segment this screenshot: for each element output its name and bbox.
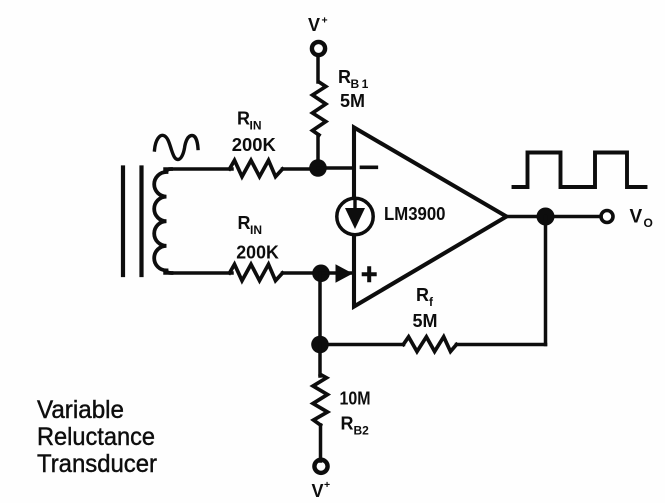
svg-text:R: R xyxy=(237,109,250,129)
node V+ bottom label xyxy=(312,479,331,501)
label LM3900 xyxy=(384,204,446,224)
svg-text:V: V xyxy=(308,15,320,35)
svg-text:200K: 200K xyxy=(236,243,279,263)
wire RB1 to minus node xyxy=(316,135,320,169)
caption Variable Reluctance Transducer xyxy=(37,396,157,478)
svg-text:B 1: B 1 xyxy=(351,77,369,91)
label Vo xyxy=(630,206,653,230)
svg-text:200K: 200K xyxy=(232,135,276,155)
wire inductor top to RIN1 xyxy=(165,167,232,171)
resistor RIN2 xyxy=(230,264,283,280)
label RB2 xyxy=(341,414,370,438)
svg-text:+: + xyxy=(322,15,328,27)
label RB1 xyxy=(338,67,369,91)
wire RIN2 to plus node xyxy=(283,271,322,275)
svg-text:O: O xyxy=(644,216,653,230)
wire op-amp output xyxy=(507,215,602,219)
wire output node down to feedback xyxy=(544,217,548,345)
label RIN2 xyxy=(238,213,263,237)
svg-text:f: f xyxy=(429,295,434,309)
label 5M (RB1) xyxy=(340,91,365,111)
svg-text:V: V xyxy=(630,206,643,227)
resistor Rf xyxy=(403,337,456,352)
svg-text:5M: 5M xyxy=(340,91,365,111)
svg-text:B2: B2 xyxy=(354,424,370,438)
square wave output symbol xyxy=(514,153,646,188)
minus input sign xyxy=(362,165,377,169)
svg-text:R: R xyxy=(416,285,429,305)
wire plus node to op-amp xyxy=(320,271,352,275)
wire Rf to feedback node xyxy=(320,343,404,347)
svg-text:R: R xyxy=(341,414,354,434)
svg-text:Reluctance: Reluctance xyxy=(37,423,155,451)
wire RIN1 to minus node xyxy=(283,167,319,171)
svg-text:IN: IN xyxy=(250,119,262,133)
current source circle (Norton) xyxy=(337,198,373,234)
op-amp U1 LM3900 xyxy=(354,128,507,307)
transducer core bar 1 xyxy=(121,168,125,276)
junction plus node xyxy=(312,265,330,283)
svg-text:IN: IN xyxy=(250,223,262,237)
svg-text:10M: 10M xyxy=(340,389,371,409)
svg-text:Transducer: Transducer xyxy=(37,450,157,478)
label 200K (RIN1) xyxy=(232,135,276,155)
svg-text:LM3900: LM3900 xyxy=(384,204,446,224)
junction feedback node xyxy=(311,336,329,354)
current source arrow xyxy=(353,201,356,211)
terminal V+ bottom xyxy=(314,460,327,473)
terminal V+ top xyxy=(312,42,325,55)
svg-text:5M: 5M xyxy=(413,311,438,331)
label RIN1 xyxy=(237,109,262,133)
svg-text:Variable: Variable xyxy=(37,396,124,424)
label 10M (RB2) xyxy=(340,389,371,409)
wire minus node to op-amp xyxy=(318,166,354,170)
plus input sign xyxy=(364,268,375,280)
wire RB2 to terminal xyxy=(319,425,323,461)
svg-text:R: R xyxy=(338,67,351,87)
junction minus node xyxy=(309,159,327,177)
wire feedback node to RB2 xyxy=(318,345,322,377)
inductor L1 xyxy=(154,169,171,273)
label 200K (RIN2) xyxy=(236,243,279,263)
terminal Vo xyxy=(601,211,613,223)
junction output node xyxy=(537,208,555,226)
wire inductor bottom to RIN2 xyxy=(165,271,232,275)
node V+ top label xyxy=(308,15,328,36)
wire V+ top to RB1 xyxy=(316,56,320,83)
sine wave symbol xyxy=(155,135,199,159)
wire feedback right segment xyxy=(457,343,546,347)
transducer core bar 2 xyxy=(139,168,143,276)
svg-text:+: + xyxy=(324,479,330,491)
svg-text:V: V xyxy=(312,481,324,501)
arrowhead plus input xyxy=(336,264,353,282)
svg-text:R: R xyxy=(238,213,251,233)
resistor RB1 xyxy=(313,82,326,135)
resistor RB2 xyxy=(313,375,328,426)
resistor RIN1 xyxy=(230,160,283,176)
wire plus node down to feedback node xyxy=(318,273,322,345)
label Rf xyxy=(416,285,434,309)
label 5M (Rf) xyxy=(413,311,438,331)
